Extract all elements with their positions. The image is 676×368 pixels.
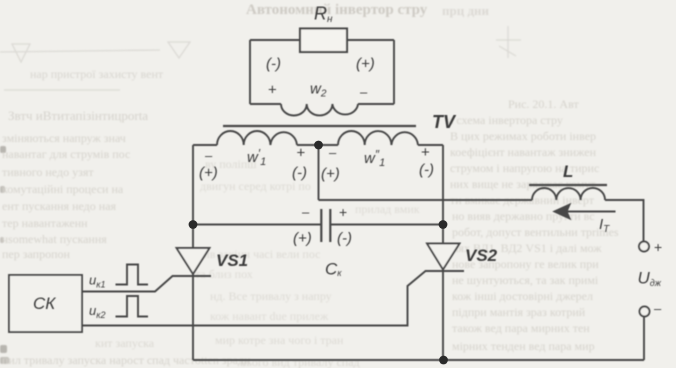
svg-text:навантаг для струмів пос: навантаг для струмів пос <box>2 147 130 161</box>
wire: top loop upper-left segment <box>250 39 300 41</box>
svg-text:–: – <box>302 205 310 220</box>
svg-text:+: + <box>421 144 430 161</box>
wire: right rail (w''1 end to VS2 anode) <box>442 145 444 244</box>
svg-text:–: – <box>329 145 337 160</box>
svg-text:пер запропон: пер запропон <box>2 247 71 261</box>
svg-text:TV: TV <box>432 112 457 132</box>
wire: VS1 cathode to bottom rail <box>192 274 194 360</box>
wire: top loop left edge <box>249 40 251 104</box>
svg-text:Автономний інвертор стру: Автономний інвертор стру <box>246 2 428 18</box>
wire: top loop bottom (load winding lead) <box>250 103 394 105</box>
wire: primary baseline center segment <box>297 144 338 146</box>
wire: top loop right edge <box>393 40 395 104</box>
node: center tap junction <box>314 141 323 150</box>
svg-text:прц дни: прц дни <box>442 3 490 18</box>
svg-text:комутаційні процеси на: комутаційні процеси на <box>2 182 124 196</box>
svg-text:–: – <box>360 85 368 100</box>
current arrow IT <box>560 211 616 213</box>
svg-text:–: – <box>205 148 213 163</box>
svg-text:а схема інвертора стру: а схема інвертора стру <box>448 113 563 127</box>
svg-text:струмом і напругою на тирис: струмом і напругою на тирис <box>450 161 599 175</box>
wire: VS2 cathode to bottom rail <box>442 270 444 361</box>
inductor L core bar <box>529 184 607 186</box>
svg-text:ент пускання недо ная: ент пускання недо ная <box>2 199 117 213</box>
winding w'1 (primary left half) <box>217 131 297 145</box>
svg-text:(+): (+) <box>356 56 375 73</box>
svg-text:чsomewhat пускання: чsomewhat пускання <box>2 232 107 246</box>
thyristor VS2 triangle <box>427 244 460 270</box>
svg-text:(+): (+) <box>199 165 218 182</box>
wire: minus terminal to bottom rail <box>643 317 645 361</box>
capacitor Ck right plate <box>329 209 331 242</box>
node: left rail / capacitor junction <box>189 220 198 229</box>
wire: primary baseline left lead <box>193 144 217 146</box>
svg-text:підпри мантія зраз котрий: підпри мантія зраз котрий <box>452 305 586 319</box>
svg-text:(-): (-) <box>266 56 281 73</box>
svg-text:мир котре зна чого і тран: мир котре зна чого і тран <box>215 333 344 347</box>
svg-text:+: + <box>654 239 662 255</box>
svg-text:L: L <box>563 162 573 181</box>
svg-text:кож інші достовірні джерел: кож інші достовірні джерел <box>452 289 593 303</box>
thyristor VS1 gate lead <box>82 276 173 292</box>
terminal + circle <box>639 242 649 252</box>
svg-text:В цих режимах роботи інвер: В цих режимах роботи інвер <box>450 129 596 143</box>
resistor Rн <box>300 29 347 53</box>
inductor L winding <box>532 188 605 200</box>
svg-text:+: + <box>268 82 277 99</box>
svg-text:(+): (+) <box>293 230 312 247</box>
svg-text:VS1: VS1 <box>216 251 248 270</box>
winding w2 (secondary) <box>281 104 358 116</box>
svg-text:VS2: VS2 <box>465 246 498 265</box>
svg-text:робот, допуст вентильни тprime: робот, допуст вентильни тprimes <box>452 225 619 239</box>
svg-text:Рис. 20.1. Авт: Рис. 20.1. Авт <box>508 97 579 111</box>
svg-text:СК: СК <box>33 294 56 313</box>
capacitor Ck left plate <box>320 209 322 242</box>
svg-text:прилад вмик: прилад вмик <box>355 202 420 216</box>
terminal - circle <box>640 307 650 317</box>
svg-text:також вед пара мирних тен: також вед пара мирних тен <box>452 321 590 335</box>
svg-text:Звтч иВтитапізінтицporta: Звтч иВтитапізінтицporta <box>8 108 148 123</box>
wire: center tap to inductor L <box>319 199 533 201</box>
thyristor VS1 cathode bar <box>172 275 211 277</box>
node: right rail / capacitor junction <box>439 220 448 229</box>
wire: primary baseline right lead <box>418 144 443 146</box>
svg-text:коефіцієнт навантаж знижен: коефіцієнт навантаж знижен <box>450 145 597 159</box>
wire: center tap down <box>318 145 320 200</box>
svg-text:(+): (+) <box>321 166 340 183</box>
transformer TV core <box>223 125 416 127</box>
thyristor VS2 gate lead <box>82 271 426 326</box>
svg-text:не шунтуються, та зак примі: не шунтуються, та зак примі <box>452 273 599 287</box>
thyristor VS2 cathode bar <box>425 270 464 272</box>
svg-text:(-): (-) <box>419 162 434 179</box>
wire: left rail (w'1 end to VS1 anode) <box>192 145 194 248</box>
wire: capacitor row left <box>193 224 321 226</box>
wire: top loop upper-right segment <box>347 39 394 41</box>
svg-text:+: + <box>297 145 306 162</box>
svg-text:(-): (-) <box>337 230 352 247</box>
svg-text:мірних тенден вед пара мир: мірних тенден вед пара мир <box>452 339 595 353</box>
svg-text:–: – <box>654 301 662 316</box>
svg-text:тер навантаженн: тер навантаженн <box>2 216 88 230</box>
control pulse uk2 <box>116 296 149 317</box>
svg-text:кит запуска: кит запуска <box>95 336 155 350</box>
svg-text:(-): (-) <box>292 165 307 182</box>
control unit CK box <box>9 275 82 332</box>
svg-text:кож навант due прилеж: кож навант due прилеж <box>210 309 329 323</box>
wire: capacitor row right <box>330 224 443 226</box>
wire: inductor L to input corner <box>605 200 644 242</box>
svg-text:нього вид тривалу спад: нього вид тривалу спад <box>240 355 360 368</box>
svg-text:тивного недо узят: тивного недо узят <box>2 165 94 179</box>
thyristor VS1 triangle <box>177 248 210 274</box>
svg-text:зміняються напруж знач: зміняються напруж знач <box>2 131 126 145</box>
svg-text:+: + <box>339 204 347 220</box>
svg-text:нд. Все тривалу з напру: нд. Все тривалу з напру <box>210 289 332 303</box>
wire: bottom rail <box>193 359 644 361</box>
svg-text:жив закінч часі вели пос: жив закінч часі вели пос <box>194 247 320 261</box>
node: right rail / bottom rail junction <box>439 356 448 365</box>
winding w''1 (primary right half) <box>338 131 418 145</box>
control pulse uk1 <box>116 265 149 285</box>
svg-text:нар пристрої захисту вент: нар пристрої захисту вент <box>30 67 164 81</box>
